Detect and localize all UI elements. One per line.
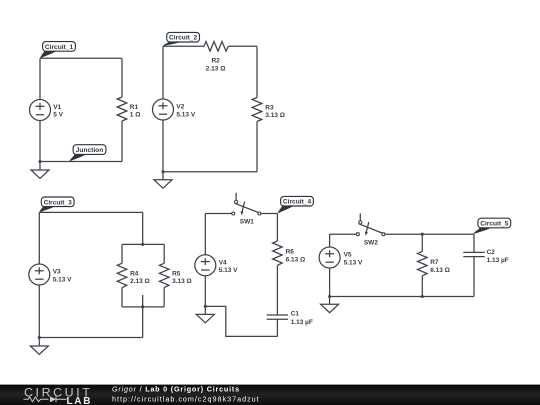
wire: R7 upper lead [421,234,423,251]
wire: C2 upper lead [473,234,475,252]
wire: c1 right lower [121,121,123,162]
svg-text:LAB: LAB [67,396,93,405]
switch SW2 [356,213,385,235]
wire: c4 left upper [204,214,206,255]
label callout Circuit_5 [473,218,510,234]
capacitor C1 [267,315,288,319]
resistor R5 [159,263,169,287]
svg-text:5.13 V: 5.13 V [176,112,195,119]
wire: c2 bottom [163,171,257,173]
svg-text:Circuit_1: Circuit_1 [45,44,74,51]
svg-text:http://circuitlab.com/c2q98k37: http://circuitlab.com/c2q98k37adzut [112,394,260,403]
label R7 value [430,259,450,274]
label callout Circuit_3 [39,197,74,212]
ground: c5 [321,297,339,313]
label callout Circuit_4 [278,196,314,213]
node: c1 ground junction [38,160,41,163]
svg-text:R6: R6 [286,249,295,256]
svg-text:1.13 µF: 1.13 µF [487,257,509,264]
wire: R6 upper lead [276,214,278,242]
svg-text:R1: R1 [130,104,139,111]
svg-text:Circuit_3: Circuit_3 [44,199,73,206]
resistor R4 [117,263,127,287]
wire: c3 stem bottom [142,295,144,338]
wire: c3 left lower [38,285,40,338]
wire: c5 left lower [329,268,331,297]
wire: c5 top left [330,233,357,235]
svg-text:Grigor / Lab 0 (Grigor) Circui: Grigor / Lab 0 (Grigor) Circuits [112,384,240,393]
label C1 value [291,310,313,326]
svg-text:Circuit_2: Circuit_2 [169,35,198,42]
label callout Circuit_2 [163,32,200,46]
label V1 value [53,104,63,119]
label callout Junction [69,145,105,162]
wire: c2 top right [228,45,257,47]
ground: c4 [196,306,214,322]
wire: c1 right upper [121,58,123,97]
svg-text:R4: R4 [130,270,139,277]
wire: c2 top left [163,45,204,47]
svg-text:C1: C1 [291,310,300,317]
resistor R7 [418,252,428,276]
wire: c1 left upper [39,58,41,99]
svg-text:5.13 V: 5.13 V [344,259,363,266]
svg-text:C2: C2 [487,249,496,256]
wire: c1 bottom [40,161,122,163]
wire: c3 bottom [39,337,142,339]
wire: c1 top [40,57,122,59]
svg-text:R3: R3 [265,104,274,111]
wire: c2 left upper [162,46,164,99]
label R5 value [172,270,192,284]
svg-text:3.13 Ω: 3.13 Ω [265,112,285,119]
svg-text:R7: R7 [430,259,439,266]
svg-text:R5: R5 [172,270,181,277]
node: c5 R7 top [421,233,424,236]
resistor R6 [273,241,283,265]
node: c3 ground junction [38,336,41,339]
label V4 value [219,259,238,274]
wire: c2 left lower [162,120,164,172]
ground: c1 [31,162,49,179]
svg-text:V2: V2 [176,104,184,111]
label callout Circuit_1 [40,42,75,59]
wire: R4 upper lead [121,244,123,263]
wire: c3 bottom rail [122,306,164,308]
label V3 value [53,269,72,284]
svg-text:1 Ω: 1 Ω [130,111,141,118]
svg-text:SW1: SW1 [240,219,254,226]
wire: c3 top rail [122,243,164,245]
label V5 value [344,252,363,267]
svg-text:6.13 Ω: 6.13 Ω [286,256,306,263]
svg-text:2.13 Ω: 2.13 Ω [206,65,226,72]
ground: c2 [154,172,172,188]
svg-text:V1: V1 [53,104,61,111]
resistor R1 [117,97,127,121]
node: c5 R7 bottom [421,295,424,298]
svg-text:V5: V5 [344,252,352,259]
wire: c4 left lower [204,276,206,307]
label R6 value [286,249,306,264]
capacitor C2 [463,252,484,256]
svg-text:1.13 µF: 1.13 µF [291,319,313,326]
wire: c5 bottom [330,296,474,298]
resistor R3 [252,98,262,122]
wire: c5 left upper [329,234,331,247]
label R3 value [265,104,285,119]
svg-text:5 V: 5 V [53,112,63,119]
label R2 value [206,57,226,72]
wire: c3 top [39,211,142,213]
label V2 value [176,104,195,119]
voltage source V5 [319,247,340,268]
svg-text:3.13 Ω: 3.13 Ω [172,278,192,285]
node: c3 parallel top [141,243,144,246]
svg-text:6.13 Ω: 6.13 Ω [430,267,450,274]
switch SW1 [232,193,261,216]
label C2 value [487,249,509,264]
voltage source V1 [30,100,51,121]
wire: c4 top left [205,213,232,215]
wire: R4 lower lead [121,288,123,307]
wire: c3 stem top [142,212,144,244]
svg-text:V3: V3 [53,269,61,276]
footer bar [0,385,540,405]
label R1 value [130,104,141,119]
wire: c3 left upper [38,212,40,264]
voltage source V2 [153,99,174,120]
svg-text:Junction: Junction [76,147,103,154]
logo schematic squiggle [24,396,67,402]
svg-text:SW2: SW2 [364,239,378,246]
svg-text:5.13 V: 5.13 V [53,276,72,283]
wire: R5 lower lead [163,288,165,307]
node: c5 ground junction [328,295,331,298]
wire: R7 lower lead [421,276,423,297]
svg-text:R2: R2 [211,57,220,64]
wire: c1 left lower [39,121,41,162]
wire: c2 right upper [256,46,258,97]
node: c3 parallel bottom [141,305,144,308]
label R4 value [130,270,150,284]
wire: c2 right lower [256,122,258,172]
ground: c3 [30,338,48,355]
wire: c4 bottom [205,306,277,336]
svg-text:5.13 V: 5.13 V [219,267,238,274]
voltage source V4 [195,255,216,276]
voltage source V3 [29,264,50,285]
wire: C1 lower lead [276,319,278,336]
node: c4 ground junction [204,305,207,308]
svg-text:Circuit_4: Circuit_4 [283,199,312,206]
wire: c5 top right [385,233,474,235]
wire: R5 upper lead [163,244,165,263]
resistor R2 [204,42,228,52]
svg-text:Circuit_5: Circuit_5 [480,221,509,228]
node: c2 ground junction [161,170,164,173]
wire: R6 to C1 [276,265,278,315]
wire: c4 top right [261,213,278,215]
svg-text:V4: V4 [219,259,227,266]
svg-text:2.13 Ω: 2.13 Ω [130,278,150,285]
wire: C2 lower lead [473,257,475,297]
